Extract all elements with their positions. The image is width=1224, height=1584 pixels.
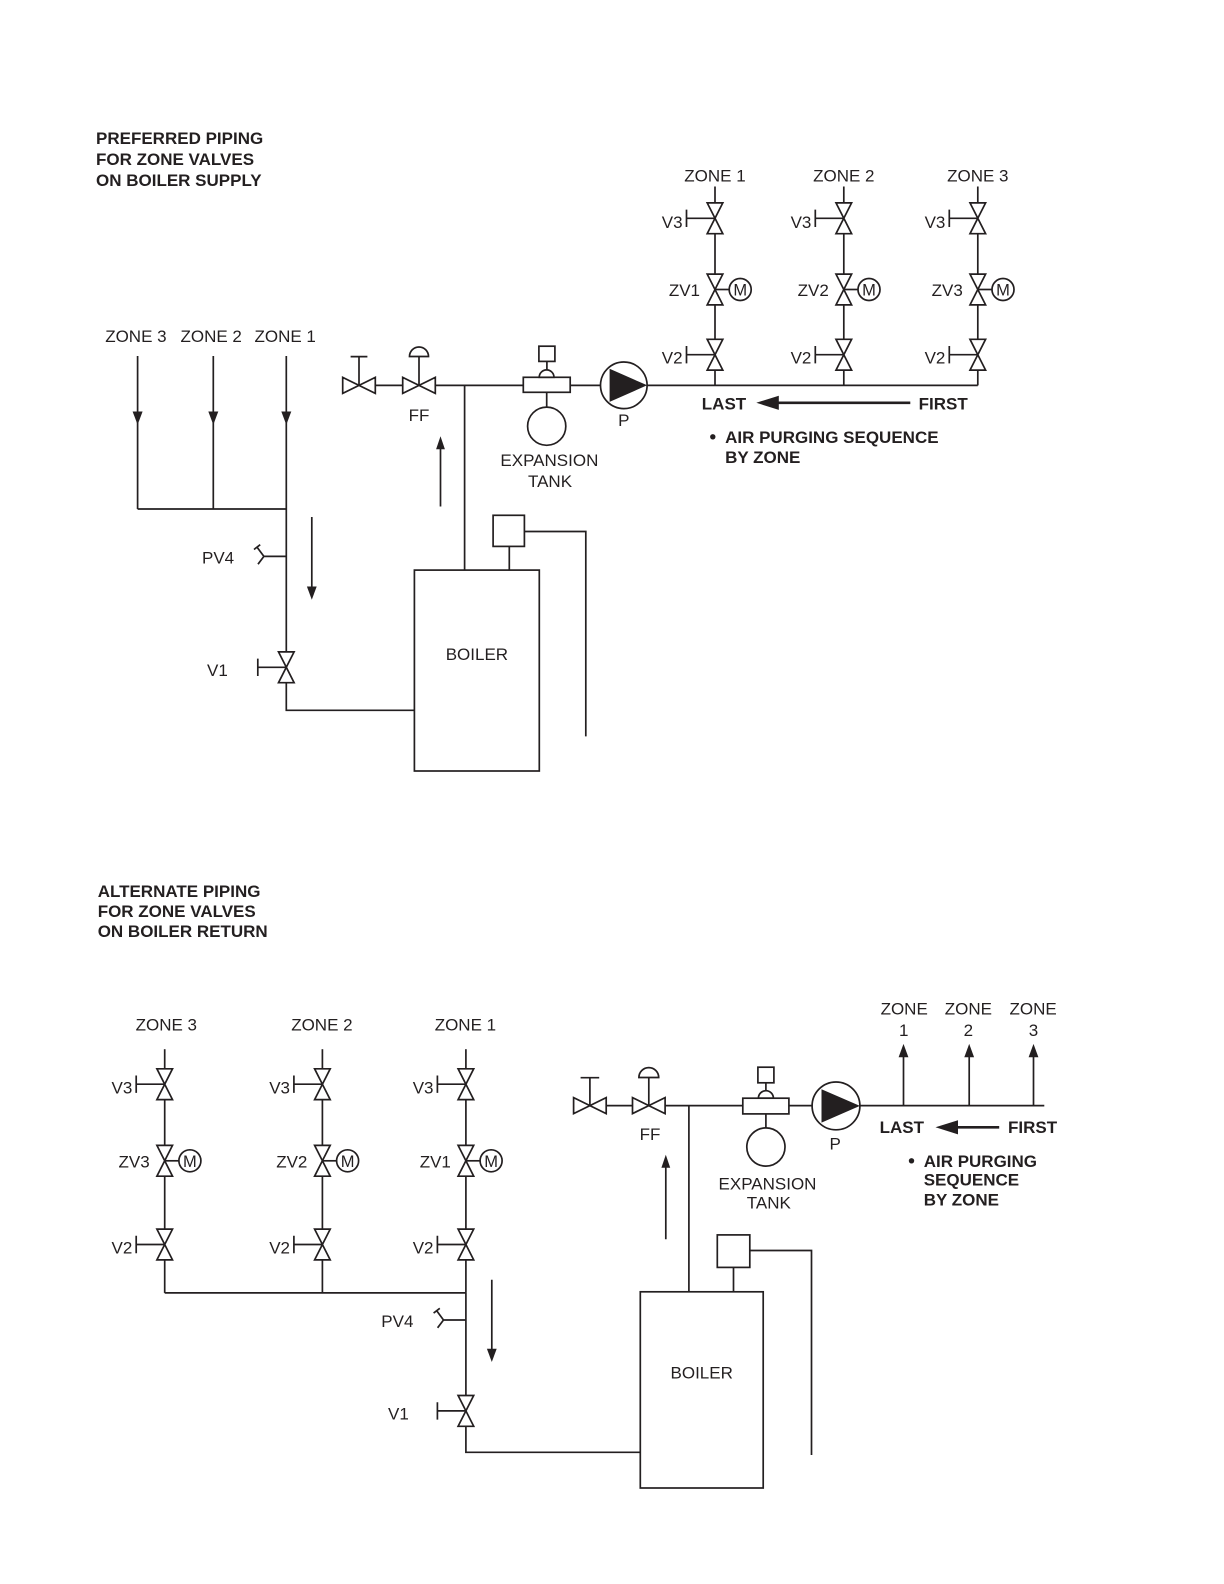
zone valve ZV2 with motor M (alternate) xyxy=(315,1145,359,1176)
valve V3 (zone 2, alternate) xyxy=(294,1069,330,1100)
svg-text:ZONE: ZONE xyxy=(945,999,992,1018)
svg-text:V2: V2 xyxy=(662,349,683,368)
wire: relief valve discharge (alternate) xyxy=(750,1251,812,1456)
wire: air separator to pump (alternate) xyxy=(789,1105,812,1107)
air vent on separator (alternate) xyxy=(758,1067,774,1091)
svg-text:V2: V2 xyxy=(269,1238,290,1257)
svg-text:ZONE 3: ZONE 3 xyxy=(136,1016,197,1035)
purge direction arrow (alternate) xyxy=(936,1120,1000,1134)
wire: V3 to ZV3 xyxy=(977,234,979,274)
svg-text:ALTERNATE PIPING: ALTERNATE PIPING xyxy=(98,882,261,901)
wire: ZV3 to V2 (alternate) xyxy=(164,1176,166,1229)
air separator xyxy=(523,370,570,392)
label EXPANSION TANK xyxy=(500,451,598,491)
flow arrow (down) beside return riser xyxy=(307,517,317,600)
svg-text:M: M xyxy=(862,282,876,300)
flow arrow up to zone 2 (alternate) xyxy=(964,1044,974,1106)
svg-text:V3: V3 xyxy=(791,213,812,232)
title: ALTERNATE PIPING FOR ZONE VALVES ON BOILER RETURN xyxy=(98,882,268,941)
label EXPANSION TANK (alternate) xyxy=(719,1175,817,1213)
boiler (preferred piping) xyxy=(414,570,539,771)
svg-text:LAST: LAST xyxy=(880,1118,925,1137)
valve V3 (zone 3, alternate) xyxy=(136,1069,172,1100)
svg-text:BOILER: BOILER xyxy=(446,645,508,664)
wire: V3 to ZV3 (alternate) xyxy=(164,1100,166,1146)
wire: zone 3 return drop xyxy=(133,356,143,509)
air separator (alternate) xyxy=(743,1091,789,1114)
svg-text:ZV1: ZV1 xyxy=(420,1153,451,1172)
zone valve ZV3 with motor M xyxy=(970,274,1014,305)
relief valve on boiler top xyxy=(493,515,524,570)
wire: zone 1 supply top xyxy=(714,187,716,203)
valve V2 (zone 2) xyxy=(815,339,851,370)
svg-text:M: M xyxy=(183,1153,197,1171)
svg-text:V2: V2 xyxy=(413,1238,434,1257)
fill valve FF xyxy=(403,347,436,393)
flow arrow (up) beside supply riser xyxy=(436,436,445,506)
relief valve on boiler top (alternate) xyxy=(717,1235,750,1292)
svg-text:PV4: PV4 xyxy=(202,549,234,568)
flow arrow (up) beside supply riser (alternate) xyxy=(661,1155,670,1240)
wire: supply main to zones (alternate) xyxy=(860,1105,1044,1107)
wire: V2 to supply main (zone 3) xyxy=(977,370,979,385)
wire: zone 2 return drop xyxy=(208,356,218,509)
valve V2 (zone 1) xyxy=(687,339,723,370)
flow arrow up to zone 1 (alternate) xyxy=(899,1044,909,1106)
purge direction arrow (first to last) xyxy=(756,396,910,410)
note: AIR PURGING SEQUENCE BY ZONE xyxy=(710,428,938,467)
wire: V1 to boiler return inlet xyxy=(286,683,414,711)
wire: FF to air separator xyxy=(435,384,523,386)
svg-text:V3: V3 xyxy=(269,1078,290,1097)
node label ZONE 2 (supply, alternate) xyxy=(945,999,992,1040)
svg-text:ZONE 1: ZONE 1 xyxy=(684,167,745,186)
svg-text:P: P xyxy=(618,411,629,430)
wire: ZV2 to V2 xyxy=(843,305,845,339)
expansion tank (alternate) xyxy=(747,1114,785,1166)
svg-text:V1: V1 xyxy=(207,661,228,680)
valve V3 (zone 3) xyxy=(949,203,985,234)
valve V2 (zone 2, alternate) xyxy=(294,1229,330,1260)
valve V3 (zone 2) xyxy=(815,203,851,234)
boiler (alternate piping) xyxy=(640,1292,763,1488)
wire: ZV3 to V2 xyxy=(977,305,979,339)
svg-text:FF: FF xyxy=(640,1125,661,1144)
wire: ZV1 to V2 xyxy=(714,305,716,339)
svg-text:ZONE 2: ZONE 2 xyxy=(291,1016,352,1035)
wire: zone 2 return top xyxy=(321,1049,323,1069)
valve V2 (zone 3) xyxy=(949,339,985,370)
title: PREFERRED PIPING FOR ZONE VALVES ON BOILER SUPPLY xyxy=(96,129,263,190)
svg-text:M: M xyxy=(484,1153,498,1171)
pump P xyxy=(601,362,648,409)
svg-text:BOILER: BOILER xyxy=(671,1364,733,1383)
svg-text:2: 2 xyxy=(964,1021,973,1040)
svg-text:V3: V3 xyxy=(112,1078,133,1097)
svg-text:M: M xyxy=(733,282,747,300)
svg-text:P: P xyxy=(830,1135,841,1154)
wire: zone 1 return top xyxy=(465,1049,467,1069)
svg-text:M: M xyxy=(996,282,1010,300)
wire: ZV2 to V2 (alternate) xyxy=(321,1176,323,1229)
wire: return header (zones 3 and 2 into zone 1 drop) xyxy=(165,1292,466,1294)
svg-text:ON BOILER SUPPLY: ON BOILER SUPPLY xyxy=(96,171,262,190)
svg-text:V3: V3 xyxy=(925,213,946,232)
wire: supply main to zone valves xyxy=(647,384,978,386)
wire: return collector header xyxy=(138,508,287,510)
svg-text:V1: V1 xyxy=(388,1404,409,1423)
valve V2 (zone 1, alternate) xyxy=(437,1229,473,1260)
svg-text:LAST: LAST xyxy=(702,395,747,414)
svg-text:FOR ZONE VALVES: FOR ZONE VALVES xyxy=(96,150,254,169)
wire: relief valve discharge xyxy=(524,532,585,737)
wire: gate valve to FF valve xyxy=(375,384,402,386)
valve V3 (zone 1, alternate) xyxy=(437,1069,473,1100)
svg-text:V2: V2 xyxy=(791,349,812,368)
pump P (alternate) xyxy=(812,1082,860,1130)
wire: return drop to V1 (alternate) xyxy=(465,1293,467,1396)
svg-text:1: 1 xyxy=(899,1021,908,1040)
svg-text:FOR ZONE VALVES: FOR ZONE VALVES xyxy=(98,902,256,921)
svg-text:TANK: TANK xyxy=(528,472,573,491)
gate valve (fill shut-off) xyxy=(343,357,376,394)
svg-text:V2: V2 xyxy=(112,1238,133,1257)
svg-text:ZONE 2: ZONE 2 xyxy=(180,327,241,346)
wire: V1 to boiler return inlet (alternate) xyxy=(466,1426,640,1452)
wire: zone 3 supply top xyxy=(977,187,979,203)
valve V1 (boiler return, alternate) xyxy=(437,1396,473,1427)
valve V1 (boiler return) xyxy=(258,652,294,683)
svg-text:ZV1: ZV1 xyxy=(669,281,700,300)
svg-text:ZONE: ZONE xyxy=(1009,999,1056,1018)
wire: return riser to V1 xyxy=(285,509,287,652)
expansion tank xyxy=(528,392,566,445)
wire: V2 down through return header junction xyxy=(465,1260,467,1293)
wire: air separator to pump xyxy=(570,384,600,386)
wire: boiler supply riser xyxy=(464,385,466,570)
wire: zone 2 supply top xyxy=(843,187,845,203)
svg-text:AIR PURGING SEQUENCE: AIR PURGING SEQUENCE xyxy=(725,428,938,447)
flow arrow up to zone 3 (alternate) xyxy=(1029,1044,1039,1106)
wire: V3 to ZV2 xyxy=(843,234,845,274)
valve V3 (zone 1) xyxy=(687,203,723,234)
note: AIR PURGING SEQUENCE BY ZONE (alternate) xyxy=(909,1152,1037,1209)
wire: zone 3 return top xyxy=(164,1049,166,1069)
wire: ZV1 to V2 (alternate) xyxy=(465,1176,467,1229)
wire: V3 to ZV2 (alternate) xyxy=(321,1100,323,1146)
wire: V2 to supply main (zone 1) xyxy=(714,370,716,385)
wire: boiler supply riser (alternate) xyxy=(688,1106,690,1292)
wire: zone 1 return drop xyxy=(281,356,291,509)
svg-text:M: M xyxy=(341,1153,355,1171)
svg-text:AIR PURGING: AIR PURGING xyxy=(924,1152,1037,1171)
svg-text:ZONE 2: ZONE 2 xyxy=(813,167,874,186)
gate valve (fill shut-off, alternate) xyxy=(574,1078,607,1114)
svg-text:BY ZONE: BY ZONE xyxy=(924,1190,999,1209)
svg-text:FF: FF xyxy=(409,406,430,425)
wire: V2 to return header (zone 2) xyxy=(321,1260,323,1293)
air vent on separator xyxy=(539,346,555,370)
fill valve FF (alternate) xyxy=(633,1068,666,1114)
wire: V3 to ZV1 xyxy=(714,234,716,274)
svg-text:ZV3: ZV3 xyxy=(119,1153,150,1172)
svg-text:PREFERRED PIPING: PREFERRED PIPING xyxy=(96,129,263,148)
zone valve ZV1 with motor M xyxy=(707,274,751,305)
zone valve ZV2 with motor M xyxy=(836,274,880,305)
svg-text:EXPANSION: EXPANSION xyxy=(500,451,598,470)
svg-text:V3: V3 xyxy=(662,213,683,232)
node label ZONE 3 (supply, alternate) xyxy=(1009,999,1056,1040)
svg-text:ZONE 1: ZONE 1 xyxy=(435,1016,496,1035)
flow arrow (down) beside return drop (alternate) xyxy=(487,1280,497,1362)
svg-text:ON BOILER RETURN: ON BOILER RETURN xyxy=(98,922,268,941)
node label ZONE 1 (supply, alternate) xyxy=(881,999,928,1040)
svg-text:EXPANSION: EXPANSION xyxy=(719,1175,817,1194)
svg-text:FIRST: FIRST xyxy=(1008,1118,1058,1137)
svg-text:BY ZONE: BY ZONE xyxy=(725,448,800,467)
svg-text:V3: V3 xyxy=(413,1078,434,1097)
svg-text:ZV3: ZV3 xyxy=(932,281,963,300)
purge valve PV4 (alternate) xyxy=(434,1308,466,1328)
wire: FF to air separator (alternate) xyxy=(665,1105,743,1107)
svg-text:ZONE 1: ZONE 1 xyxy=(254,327,315,346)
zone valve ZV3 with motor M (alternate) xyxy=(157,1145,201,1176)
svg-text:ZONE: ZONE xyxy=(881,999,928,1018)
svg-text:V2: V2 xyxy=(925,349,946,368)
svg-text:ZONE 3: ZONE 3 xyxy=(947,167,1008,186)
wire: gate valve to FF valve (alternate) xyxy=(606,1105,632,1107)
svg-text:TANK: TANK xyxy=(747,1194,792,1213)
svg-text:ZONE 3: ZONE 3 xyxy=(105,327,166,346)
wire: V2 to return header (zone 3) xyxy=(164,1260,166,1293)
svg-text:3: 3 xyxy=(1029,1021,1038,1040)
zone valve ZV1 with motor M (alternate) xyxy=(458,1145,502,1176)
svg-text:ZV2: ZV2 xyxy=(276,1153,307,1172)
purge valve PV4 xyxy=(254,545,286,565)
svg-text:ZV2: ZV2 xyxy=(798,281,829,300)
wire: V3 to ZV1 (alternate) xyxy=(465,1100,467,1146)
svg-text:FIRST: FIRST xyxy=(919,395,969,414)
wire: V2 to supply main (zone 2) xyxy=(843,370,845,385)
svg-text:PV4: PV4 xyxy=(381,1312,413,1331)
svg-text:SEQUENCE: SEQUENCE xyxy=(924,1171,1019,1190)
valve V2 (zone 3, alternate) xyxy=(136,1229,172,1260)
